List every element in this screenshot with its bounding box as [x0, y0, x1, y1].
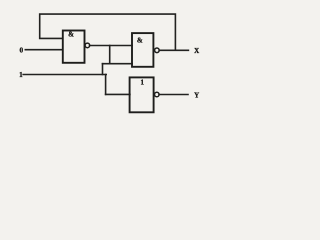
NAND gate U1 body	[63, 31, 85, 63]
svg-text:Y: Y	[194, 91, 199, 99]
U2 output bubble	[155, 48, 160, 53]
U1 output bubble	[85, 43, 90, 48]
NAND gate U2 body	[132, 33, 153, 67]
wire U1 output to U2 upper input	[90, 45, 133, 47]
wire feedback from node X: up, across top, down to U1 upper input	[40, 14, 176, 49]
wire U3 input horizontal	[106, 93, 130, 95]
wire riser input1 to U2 lower input line	[102, 64, 104, 75]
wire X output line	[159, 49, 188, 51]
U3 output bubble	[155, 92, 160, 97]
inverter U3 body	[130, 77, 154, 112]
wire to U2 lower input	[103, 63, 133, 65]
svg-text:0: 0	[20, 47, 24, 55]
wire input 1 horizontal	[23, 74, 106, 76]
wire drop input1 to U3 input	[105, 75, 107, 95]
svg-text:&: &	[68, 31, 74, 39]
svg-text:&: &	[137, 37, 143, 45]
svg-text:1: 1	[19, 71, 23, 79]
svg-text:1: 1	[141, 79, 145, 87]
wire input 0 to U1 lower input	[25, 49, 62, 51]
svg-text:X: X	[194, 47, 199, 55]
wire junction drop from U1 output line	[109, 46, 111, 64]
wire Y output line	[159, 94, 188, 96]
